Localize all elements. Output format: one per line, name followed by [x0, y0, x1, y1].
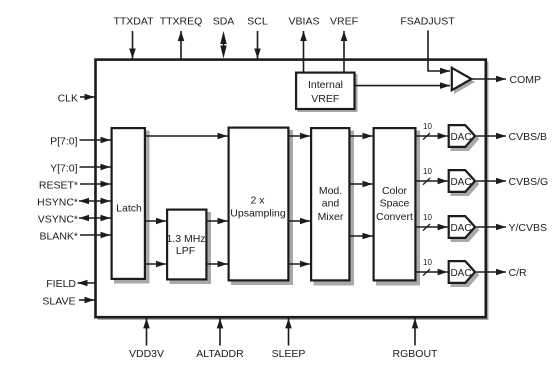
svg-text:VBIAS: VBIAS: [289, 16, 320, 28]
wire Color Space to DAC1: [417, 135, 448, 137]
op-amp comparator triangle: [452, 68, 472, 90]
svg-text:COMP: COMP: [510, 74, 542, 86]
wire COMP output: [472, 78, 507, 80]
wire HSYNC* bidirectional to Latch: [79, 200, 111, 202]
block Latch: [112, 128, 145, 279]
svg-text:HSYNC*: HSYNC*: [37, 197, 78, 209]
DAC U2 (CVBS/G): [449, 170, 475, 192]
svg-text:BLANK*: BLANK*: [39, 231, 78, 243]
svg-text:10: 10: [423, 258, 432, 267]
DAC U4 (C/R): [449, 261, 475, 283]
wire Color Space to DAC2: [417, 180, 448, 182]
wire Mod to Color Space (top): [351, 135, 373, 137]
block Color Space Convert shadow: [376, 131, 420, 286]
wire Latch to LPF (upper): [146, 220, 166, 222]
svg-text:Internal: Internal: [308, 79, 343, 91]
bus width slash DAC3: [423, 224, 430, 231]
svg-text:CVBS/B: CVBS/B: [509, 131, 548, 143]
wire FIELD output: [78, 282, 96, 284]
wire Upsampling to Mod (top): [290, 135, 311, 137]
svg-text:TTXDAT: TTXDAT: [113, 16, 154, 28]
svg-text:VREF: VREF: [311, 93, 339, 105]
DAC U2 shadow: [451, 172, 480, 196]
svg-text:CVBS/G: CVBS/G: [509, 176, 549, 188]
svg-text:Y/CVBS: Y/CVBS: [509, 222, 548, 234]
DAC U3 (Y/CVBS): [449, 216, 475, 238]
block 2x Upsampling shadow: [231, 130, 293, 285]
wire VDD3V input: [146, 318, 148, 345]
svg-text:RESET*: RESET*: [39, 180, 78, 192]
svg-text:Y[7:0]: Y[7:0]: [50, 163, 78, 175]
svg-text:Mixer: Mixer: [318, 211, 344, 223]
bus width slash DAC1: [423, 133, 430, 140]
svg-text:CLK: CLK: [58, 93, 78, 105]
block Latch shadow: [114, 131, 150, 284]
wire ALTADDR input: [219, 318, 221, 345]
svg-text:DAC: DAC: [450, 268, 471, 279]
svg-text:DAC: DAC: [450, 132, 471, 143]
svg-text:P[7:0]: P[7:0]: [50, 136, 78, 148]
svg-text:Mod.: Mod.: [319, 185, 342, 197]
svg-text:2 x: 2 x: [250, 195, 265, 207]
DAC U1 shadow: [451, 127, 480, 151]
wire Y/CVBS output: [476, 226, 506, 228]
wire VSYNC* bidirectional to Latch: [79, 217, 111, 219]
bus width slash DAC4: [423, 269, 430, 276]
wire BLANK* input to Latch: [80, 234, 111, 236]
wire LPF to Upsampling (lower): [208, 263, 228, 265]
wire CLK input: [80, 96, 95, 98]
svg-text:LPF: LPF: [176, 245, 195, 257]
wire RESET* input to Latch: [80, 183, 111, 185]
wire Latch to Upsampling (top): [146, 135, 228, 137]
svg-text:and: and: [322, 198, 340, 210]
svg-text:Upsampling: Upsampling: [230, 208, 286, 220]
svg-text:10: 10: [423, 122, 432, 131]
block 1.3 MHz LPF shadow: [170, 212, 212, 284]
svg-text:VSYNC*: VSYNC*: [38, 214, 78, 226]
wire SDA bidirectional: [223, 40, 225, 50]
wire Mod to Color Space (bottom): [351, 235, 373, 237]
wire VBIAS output from Internal VREF: [303, 31, 305, 72]
svg-text:VDD3V: VDD3V: [129, 348, 164, 360]
svg-text:10: 10: [423, 213, 432, 222]
svg-text:SDA: SDA: [213, 16, 235, 28]
wire VREF output from Internal VREF: [343, 31, 345, 72]
svg-text:RGBOUT: RGBOUT: [393, 348, 439, 360]
svg-text:FSADJUST: FSADJUST: [400, 16, 455, 28]
wire TTXDAT input: [132, 31, 134, 59]
wire Internal VREF to comparator: [356, 85, 451, 87]
block Internal VREF shadow: [298, 74, 358, 112]
svg-text:10: 10: [423, 167, 432, 176]
svg-text:1.3 MHz: 1.3 MHz: [166, 233, 205, 245]
svg-text:Color: Color: [382, 185, 408, 197]
wire CVBS/G output: [476, 180, 506, 182]
wire Upsampling to Mod (middle): [290, 220, 311, 222]
block Mod and Mixer shadow: [314, 131, 355, 286]
wire P[7:0] input to Latch: [80, 139, 111, 141]
wire Color Space to DAC4: [417, 271, 448, 273]
wire CVBS/B output: [476, 135, 506, 137]
svg-text:FIELD: FIELD: [46, 278, 76, 290]
svg-text:SLAVE: SLAVE: [42, 295, 75, 307]
svg-text:Convert: Convert: [376, 211, 413, 223]
svg-text:DAC: DAC: [450, 223, 471, 234]
chip outer boundary: [96, 60, 486, 318]
wire Y[7:0] input to Latch: [80, 166, 111, 168]
svg-text:Space: Space: [380, 198, 410, 210]
svg-text:VREF: VREF: [330, 16, 358, 28]
bus width slash DAC2: [423, 178, 430, 185]
wire LPF to Upsampling (upper): [208, 220, 228, 222]
wire Mod to Color Space (middle): [351, 183, 373, 185]
op-amp comparator shadow: [454, 70, 475, 94]
block 2x Upsampling: [229, 128, 289, 281]
wire RGBOUT input: [414, 318, 416, 345]
block 1.3 MHz LPF: [167, 210, 206, 280]
wire SLEEP input: [288, 318, 290, 345]
wire SCL input: [257, 31, 259, 59]
DAC U4 shadow: [451, 263, 480, 287]
block Mod and Mixer: [311, 128, 349, 280]
block Color Space Convert: [374, 128, 416, 280]
wire SLAVE input: [79, 299, 95, 301]
svg-text:C/R: C/R: [509, 267, 528, 279]
wire Color Space to DAC3: [417, 226, 448, 228]
svg-text:SCL: SCL: [247, 16, 268, 28]
wire FSADJUST into comparator: [428, 31, 450, 72]
DAC U3 shadow: [451, 218, 480, 242]
svg-text:Latch: Latch: [116, 203, 142, 215]
wire Latch to LPF (lower): [146, 263, 166, 265]
wire Upsampling to Mod (bottom): [290, 263, 311, 265]
wire TTXREQ output: [180, 31, 182, 59]
svg-text:DAC: DAC: [450, 177, 471, 188]
svg-text:TTXREQ: TTXREQ: [160, 16, 203, 28]
block Internal VREF: [296, 73, 354, 109]
DAC U1 (CVBS/B): [449, 125, 475, 147]
svg-text:ALTADDR: ALTADDR: [196, 348, 244, 360]
wire C/R output: [476, 271, 506, 273]
svg-text:SLEEP: SLEEP: [272, 348, 306, 360]
chip outer boundary shadow: [98, 62, 489, 321]
